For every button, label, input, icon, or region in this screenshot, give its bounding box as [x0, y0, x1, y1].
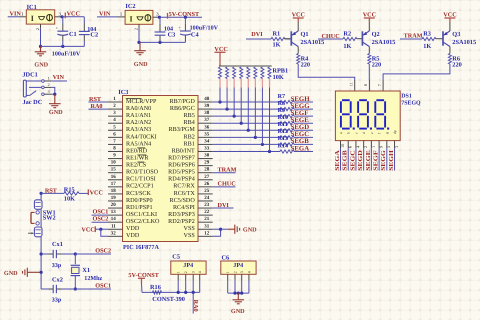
svg-text:17: 17 — [111, 181, 117, 187]
pin 1 of JDC1 — [44, 76, 51, 81]
pin 4 of C6 — [248, 274, 250, 280]
svg-text:OSC2: OSC2 — [93, 216, 109, 223]
svg-text:X1: X1 — [82, 267, 90, 274]
power port VCC — [81, 226, 95, 233]
svg-text:IC3: IC3 — [118, 89, 128, 96]
svg-text:RD2/PSP2: RD2/PSP2 — [168, 218, 195, 225]
svg-text:21: 21 — [204, 216, 210, 222]
svg-text:2: 2 — [363, 146, 368, 148]
net label SEGC — [349, 150, 356, 171]
wire — [268, 88, 270, 152]
svg-text:10K: 10K — [64, 196, 75, 203]
wire — [192, 292, 194, 313]
svg-text:23: 23 — [204, 202, 210, 208]
svg-text:OSC2/CLKO: OSC2/CLKO — [126, 218, 160, 225]
svg-text:11: 11 — [111, 223, 116, 229]
wire — [219, 88, 221, 103]
svg-text:R12: R12 — [278, 128, 289, 135]
svg-text:SEGB: SEGB — [291, 138, 310, 145]
junction — [233, 292, 236, 295]
svg-text:16: 16 — [111, 174, 117, 180]
regulator IC1 — [26, 4, 54, 24]
net label DVI — [251, 31, 263, 38]
junction — [237, 292, 240, 295]
svg-text:IC2: IC2 — [125, 3, 135, 10]
wire — [294, 122, 313, 124]
power port VCC — [363, 12, 376, 27]
junction — [99, 228, 102, 231]
svg-text:SEGD: SEGD — [291, 124, 310, 131]
ground — [4, 268, 41, 278]
net label SEGG — [380, 150, 387, 171]
svg-text:R3: R3 — [423, 30, 431, 37]
wire — [40, 193, 42, 199]
capacitor C4 — [178, 17, 218, 42]
pin 1 of IC2 — [118, 11, 125, 17]
pin 3 of C6 — [241, 274, 243, 280]
svg-text:Cx2: Cx2 — [52, 276, 63, 283]
svg-text:GND: GND — [34, 61, 48, 68]
wire — [142, 291, 200, 293]
wire — [139, 41, 185, 43]
svg-text:RA0: RA0 — [192, 300, 199, 312]
wire — [213, 122, 280, 124]
display pin 9 — [379, 141, 384, 149]
wire — [246, 38, 271, 40]
junction — [184, 16, 187, 19]
svg-text:30: 30 — [204, 153, 210, 159]
connector C6 JP4 — [221, 255, 256, 275]
junction — [137, 41, 140, 44]
net label OSC2 — [95, 247, 111, 254]
svg-text:8: 8 — [363, 84, 368, 86]
svg-text:10: 10 — [340, 144, 345, 148]
resistor R2 — [343, 30, 357, 50]
svg-text:RB3/PGM: RB3/PGM — [169, 126, 196, 133]
svg-text:14: 14 — [111, 216, 117, 222]
resistor R15 — [64, 186, 79, 202]
net label RA0 — [89, 103, 109, 110]
svg-text:3: 3 — [48, 89, 50, 94]
svg-text:GND: GND — [49, 109, 63, 116]
wire — [52, 87, 55, 94]
pin 4 of C5 — [199, 274, 201, 280]
svg-text:VCC: VCC — [90, 190, 103, 197]
svg-text:2: 2 — [134, 28, 139, 30]
svg-text:2: 2 — [48, 82, 50, 87]
wire — [97, 16, 118, 18]
net label DVI — [213, 202, 234, 209]
display DS1 7SEGQ — [335, 91, 421, 141]
svg-text:RC0/T1OSO: RC0/T1OSO — [126, 169, 159, 176]
svg-text:12: 12 — [204, 230, 210, 236]
svg-text:C6: C6 — [222, 255, 230, 262]
capacitor Cx1 — [41, 241, 75, 269]
svg-text:TRAM: TRAM — [218, 166, 237, 173]
wire — [240, 88, 242, 124]
wire — [185, 281, 187, 293]
capacitor C1 — [56, 17, 77, 46]
svg-text:1: 1 — [177, 271, 181, 273]
svg-text:18: 18 — [111, 188, 117, 194]
power port VCC — [443, 12, 456, 27]
resistor R7 — [278, 94, 294, 104]
svg-text:TRAM: TRAM — [404, 32, 423, 39]
wire — [234, 281, 236, 294]
svg-text:OSC1: OSC1 — [93, 209, 109, 216]
svg-text:OSC1: OSC1 — [95, 282, 111, 289]
svg-text:1: 1 — [48, 76, 50, 81]
wire — [199, 281, 201, 293]
net label VIN — [53, 74, 65, 81]
junction — [61, 45, 64, 48]
svg-text:C1: C1 — [69, 31, 77, 38]
wire — [355, 148, 357, 170]
transistor Q1 — [284, 26, 324, 52]
junction — [192, 291, 195, 294]
pin 3 of JDC1 — [44, 89, 51, 94]
svg-text:RC4/SPI: RC4/SPI — [173, 204, 195, 211]
wire — [294, 150, 313, 152]
junction — [233, 115, 236, 118]
junction — [40, 271, 43, 274]
wire — [213, 115, 280, 117]
net label 5V-CONST — [128, 272, 159, 292]
svg-text:R14: R14 — [278, 142, 289, 149]
svg-text:38: 38 — [204, 110, 210, 116]
wire — [79, 192, 88, 194]
svg-text:Q2: Q2 — [372, 31, 380, 38]
junction — [219, 228, 222, 231]
wire — [41, 192, 64, 194]
svg-text:g: g — [385, 132, 389, 134]
svg-text:dp: dp — [393, 130, 397, 134]
svg-text:RE2/CS: RE2/CS — [126, 162, 147, 169]
svg-text:RC5/SDO: RC5/SDO — [170, 197, 196, 204]
svg-text:GND: GND — [134, 61, 148, 68]
svg-text:SEGB: SEGB — [342, 150, 349, 171]
wire — [254, 88, 256, 138]
svg-text:RA5/AN4: RA5/AN4 — [126, 140, 151, 147]
resistor R8 — [278, 100, 294, 111]
junction — [268, 150, 271, 153]
svg-text:20: 20 — [111, 202, 117, 208]
wire — [40, 237, 42, 289]
net label CHUC — [322, 33, 340, 40]
power port VCC — [214, 46, 227, 66]
wire — [62, 16, 84, 18]
svg-text:SEGF: SEGF — [291, 110, 309, 117]
svg-text:JP4: JP4 — [233, 262, 243, 269]
svg-text:VIN: VIN — [53, 74, 65, 81]
svg-text:VDD: VDD — [126, 232, 140, 239]
wire — [363, 148, 365, 170]
pin 2 of C5 — [185, 274, 187, 280]
svg-text:31: 31 — [204, 223, 210, 229]
svg-text:RD5/PSP5: RD5/PSP5 — [168, 169, 195, 176]
net label SEGB — [342, 150, 349, 171]
pin 1 of C5 — [177, 274, 179, 280]
svg-text:Jac DC: Jac DC — [23, 99, 43, 106]
wire — [75, 253, 96, 255]
junction — [225, 107, 228, 110]
svg-text:RB0/INT: RB0/INT — [172, 147, 195, 154]
svg-text:36: 36 — [204, 124, 210, 130]
svg-text:I: I — [130, 14, 133, 23]
svg-text:RB5: RB5 — [184, 112, 195, 119]
wire — [41, 45, 85, 47]
wire — [233, 88, 235, 117]
svg-text:I: I — [31, 14, 34, 23]
svg-text:37: 37 — [204, 117, 210, 123]
svg-text:3: 3 — [192, 271, 196, 273]
junction — [218, 100, 221, 103]
svg-text:2SA1015: 2SA1015 — [372, 39, 396, 46]
resistor R14 — [278, 142, 294, 153]
capacitor Cx2 — [41, 276, 75, 303]
svg-text:RD3/PSP3: RD3/PSP3 — [168, 211, 195, 218]
junction — [53, 93, 56, 96]
wire — [52, 80, 67, 82]
net label RST — [45, 188, 58, 195]
svg-text:1K: 1K — [343, 43, 351, 50]
svg-text:1: 1 — [371, 146, 376, 148]
svg-text:1K: 1K — [273, 41, 281, 48]
wire — [213, 150, 280, 152]
svg-text:OSC1/CLKI: OSC1/CLKI — [126, 211, 157, 218]
net label SEGD — [291, 124, 310, 131]
svg-text:RB7/PGD: RB7/PGD — [170, 98, 196, 105]
net label SEGH — [291, 96, 311, 103]
wire — [370, 148, 372, 170]
wire — [340, 148, 342, 170]
svg-text:SEGF: SEGF — [373, 150, 380, 171]
resistor R3 — [422, 30, 436, 50]
resistor R6 — [448, 52, 461, 69]
svg-text:2SA1015: 2SA1015 — [301, 39, 325, 46]
net label SEGE — [365, 150, 372, 171]
wire — [400, 38, 422, 40]
net label SEGC — [291, 131, 310, 138]
wire — [368, 64, 370, 80]
svg-text:5: 5 — [386, 146, 391, 148]
junction — [40, 192, 43, 195]
transistor Q3 — [436, 26, 476, 52]
wire — [247, 88, 249, 131]
net label CHUC — [213, 181, 236, 188]
junction — [240, 292, 243, 295]
connector C5 JP4 — [171, 253, 206, 274]
junction — [261, 143, 264, 146]
display pin 3 — [394, 141, 399, 149]
svg-text:33p: 33p — [52, 296, 62, 303]
svg-text:2: 2 — [234, 271, 238, 273]
wire — [261, 88, 263, 145]
wire — [228, 292, 249, 294]
svg-text:DS1: DS1 — [401, 94, 412, 100]
wire — [378, 148, 380, 170]
svg-text:RD6/PSP6: RD6/PSP6 — [168, 162, 195, 169]
svg-text:VDD: VDD — [126, 225, 140, 232]
svg-text:C5: C5 — [172, 253, 180, 260]
pin 3 of IC2 — [153, 12, 160, 18]
resistor R16 — [150, 284, 185, 303]
svg-text:34: 34 — [204, 138, 210, 144]
svg-text:VSS: VSS — [184, 225, 196, 232]
wire — [52, 93, 55, 95]
display pin 1 — [371, 141, 376, 149]
svg-text:PIC 16F877A: PIC 16F877A — [123, 244, 159, 251]
pin 1 of C6 — [227, 274, 229, 280]
svg-text:JDC1: JDC1 — [22, 72, 37, 79]
svg-text:SEGA: SEGA — [291, 145, 310, 152]
svg-text:GND: GND — [231, 308, 245, 315]
wire — [213, 136, 280, 138]
svg-text:RC1/T1OSI: RC1/T1OSI — [126, 176, 156, 183]
crystal X1 — [71, 254, 103, 289]
svg-text:SEGE: SEGE — [291, 117, 310, 124]
svg-text:9: 9 — [379, 146, 384, 148]
switch SW2 — [28, 214, 56, 237]
junction — [74, 287, 77, 290]
net label RST — [89, 96, 109, 103]
junction — [240, 122, 243, 125]
wire — [383, 64, 450, 80]
wire — [75, 288, 96, 290]
wire — [241, 281, 243, 294]
svg-text:2: 2 — [184, 271, 188, 273]
svg-text:220: 220 — [301, 61, 310, 68]
wire — [8, 16, 20, 18]
svg-text:RD7/PSP7: RD7/PSP7 — [168, 154, 195, 161]
svg-text:RD4/PSP4: RD4/PSP4 — [168, 176, 195, 183]
capacitor C2 — [79, 17, 98, 47]
wire — [213, 108, 280, 110]
svg-text:VCC: VCC — [81, 226, 94, 233]
svg-text:R9: R9 — [278, 107, 285, 114]
svg-text:SEGH: SEGH — [388, 150, 395, 171]
wire — [294, 115, 313, 117]
junction — [158, 16, 161, 19]
net label SEGF — [291, 110, 309, 117]
svg-text:15: 15 — [111, 167, 117, 173]
display pin 5 — [386, 141, 391, 149]
resistor R1 — [271, 30, 285, 48]
svg-text:Q1: Q1 — [301, 31, 309, 38]
svg-text:24: 24 — [204, 195, 210, 201]
svg-text:CONST-390: CONST-390 — [152, 296, 185, 303]
wire — [213, 101, 280, 103]
svg-text:VCC: VCC — [67, 11, 80, 18]
power port 5V-CONST — [168, 11, 200, 19]
wire — [159, 16, 202, 18]
svg-text:SEGC: SEGC — [349, 150, 356, 171]
svg-text:12Mhz: 12Mhz — [84, 275, 102, 282]
svg-text:R1: R1 — [273, 30, 281, 37]
pin 2 of JDC1 — [44, 82, 51, 87]
svg-text:RC7/RX: RC7/RX — [173, 183, 195, 190]
svg-text:220: 220 — [452, 61, 461, 68]
wire — [40, 29, 42, 47]
svg-text:3: 3 — [240, 271, 244, 273]
svg-text:R7: R7 — [278, 94, 285, 100]
regulator IC2 — [125, 3, 153, 24]
junction — [158, 41, 161, 44]
wire — [285, 38, 291, 40]
svg-text:SEGE: SEGE — [365, 150, 372, 171]
svg-text:C4: C4 — [191, 31, 200, 38]
svg-text:26: 26 — [204, 181, 210, 187]
wire — [95, 228, 108, 230]
svg-text:RB4: RB4 — [184, 119, 195, 126]
net label SEGG — [291, 103, 311, 110]
svg-text:VSS: VSS — [184, 232, 196, 239]
svg-text:Cx1: Cx1 — [52, 241, 63, 248]
junction — [177, 291, 180, 294]
wire — [294, 129, 313, 131]
pin 2 of IC2 — [134, 24, 139, 30]
junction — [254, 136, 257, 139]
resistor R12 — [278, 128, 294, 139]
net label SEGH — [388, 150, 395, 171]
wire — [298, 64, 355, 80]
net label RA0 — [192, 300, 199, 312]
pin 3 of IC1 — [55, 11, 62, 17]
junction — [247, 129, 250, 132]
svg-text:+: + — [56, 25, 59, 30]
svg-text:R16: R16 — [150, 284, 161, 291]
capacitor C3 — [155, 17, 176, 42]
svg-text:2: 2 — [35, 28, 40, 30]
svg-text:RA0/AN0: RA0/AN0 — [126, 105, 151, 112]
svg-text:7SEGQ: 7SEGQ — [401, 101, 421, 107]
svg-text:22: 22 — [204, 209, 210, 215]
svg-text:R8: R8 — [278, 100, 285, 107]
wire — [192, 281, 194, 293]
svg-text:40: 40 — [204, 96, 210, 102]
junction — [184, 291, 187, 294]
svg-text:1: 1 — [226, 271, 230, 273]
svg-text:RA2/AN2: RA2/AN2 — [126, 119, 151, 126]
svg-text:1K: 1K — [423, 43, 431, 50]
svg-text:RC2/CCP1: RC2/CCP1 — [126, 183, 154, 190]
svg-text:R11: R11 — [278, 121, 288, 128]
svg-text:RC3/SCK: RC3/SCK — [126, 190, 151, 197]
switch actuator — [31, 212, 35, 223]
net label VIN — [99, 11, 111, 18]
wire — [213, 143, 280, 145]
svg-text:100uF/10V: 100uF/10V — [52, 50, 81, 57]
wire — [138, 29, 140, 43]
net label SEGD — [357, 150, 364, 171]
svg-text:33p: 33p — [52, 262, 62, 269]
svg-text:27: 27 — [204, 174, 210, 180]
wire — [294, 136, 313, 138]
svg-text:SEGD: SEGD — [357, 150, 364, 171]
pin 3 of C5 — [192, 274, 194, 280]
wire — [101, 229, 108, 236]
svg-text:SEGA: SEGA — [334, 150, 341, 171]
resistor R4 — [297, 52, 310, 69]
display pin 10 — [340, 141, 345, 149]
resistor pack RPB1 — [219, 66, 289, 88]
svg-text:JP4: JP4 — [183, 262, 193, 269]
svg-text:3: 3 — [394, 146, 399, 148]
svg-text:4: 4 — [247, 271, 251, 273]
resistor R9 — [278, 107, 294, 118]
net label TRAM — [404, 32, 423, 39]
wire — [226, 88, 228, 110]
